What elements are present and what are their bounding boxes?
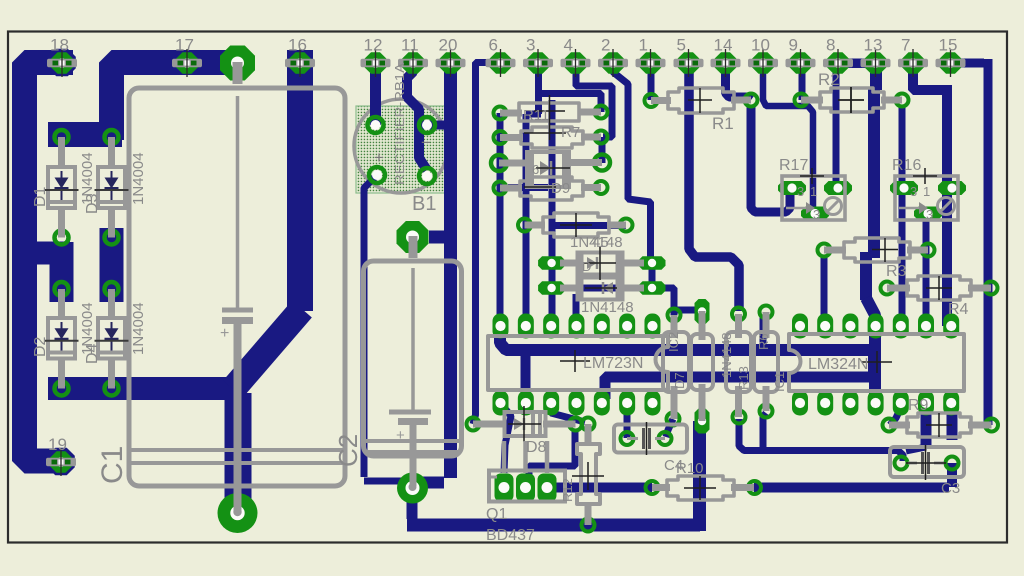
svg-text:8: 8 (826, 36, 835, 55)
svg-text:14: 14 (714, 36, 733, 55)
svg-text:1: 1 (923, 184, 930, 199)
svg-text:LM723N: LM723N (583, 355, 643, 372)
svg-text:R9: R9 (908, 397, 929, 414)
svg-text:45: 45 (592, 234, 609, 251)
svg-text:LM324N: LM324N (808, 356, 868, 373)
svg-text:D8: D8 (526, 439, 547, 456)
svg-text:20: 20 (439, 36, 458, 55)
svg-text:R4: R4 (948, 301, 969, 318)
svg-text:−: − (421, 133, 431, 152)
svg-text:1N4004: 1N4004 (130, 152, 147, 205)
svg-text:19: 19 (48, 435, 67, 454)
svg-text:BD437: BD437 (486, 527, 535, 544)
svg-text:6: 6 (489, 36, 498, 55)
svg-text:17: 17 (175, 36, 194, 55)
svg-text:R1: R1 (712, 114, 734, 133)
svg-text:R2: R2 (818, 70, 840, 89)
svg-text:18: 18 (50, 36, 69, 55)
svg-text:R6: R6 (756, 333, 771, 350)
svg-text:9: 9 (789, 36, 798, 55)
svg-text:1N4148: 1N4148 (581, 299, 634, 316)
svg-text:C2: C2 (333, 434, 363, 467)
svg-text:RECTIFIER-RB1A: RECTIFIER-RB1A (392, 63, 407, 185)
svg-text:12: 12 (364, 36, 383, 55)
svg-text:D: D (582, 259, 591, 274)
svg-text:4: 4 (564, 36, 573, 55)
svg-text:IC2: IC2 (666, 332, 681, 352)
svg-text:R13: R13 (736, 366, 751, 390)
svg-text:D9: D9 (551, 180, 570, 197)
svg-text:13: 13 (864, 36, 883, 55)
svg-text:10: 10 (751, 36, 770, 55)
svg-text:D1: D1 (32, 186, 49, 207)
svg-text:1N4148: 1N4148 (719, 332, 734, 378)
svg-text:R12: R12 (560, 478, 575, 502)
svg-text:D2: D2 (32, 336, 49, 357)
svg-text:+: + (396, 427, 405, 444)
svg-text:3: 3 (926, 207, 933, 222)
svg-text:R7: R7 (561, 124, 580, 141)
svg-text:D7: D7 (672, 372, 687, 389)
svg-text:R17: R17 (779, 157, 808, 174)
svg-text:11: 11 (401, 36, 419, 55)
svg-text:C1: C1 (96, 446, 129, 484)
svg-text:1: 1 (810, 184, 817, 199)
svg-text:2: 2 (601, 36, 610, 55)
svg-text:6: 6 (532, 162, 539, 177)
svg-text:1N4004: 1N4004 (130, 302, 147, 355)
svg-text:1: 1 (639, 36, 648, 55)
svg-text:C3: C3 (941, 480, 960, 497)
svg-text:B1: B1 (412, 193, 436, 215)
svg-text:IC1: IC1 (772, 372, 787, 392)
svg-text:5: 5 (677, 36, 686, 55)
svg-text:3: 3 (797, 184, 804, 199)
svg-text:R16: R16 (892, 157, 921, 174)
svg-text:+: + (374, 148, 384, 167)
svg-text:+: + (220, 325, 229, 342)
svg-text:3: 3 (526, 36, 535, 55)
svg-text:3: 3 (910, 184, 917, 199)
svg-text:D3: D3 (84, 193, 101, 214)
svg-text:D4: D4 (84, 343, 101, 364)
svg-text:Q1: Q1 (486, 506, 507, 523)
svg-text:7: 7 (901, 36, 910, 55)
svg-text:R11: R11 (523, 107, 549, 124)
svg-text:R3: R3 (886, 263, 907, 280)
svg-text:16: 16 (288, 36, 307, 55)
svg-text:R10: R10 (676, 460, 704, 477)
svg-text:3: 3 (813, 207, 820, 222)
svg-text:15: 15 (939, 36, 958, 55)
